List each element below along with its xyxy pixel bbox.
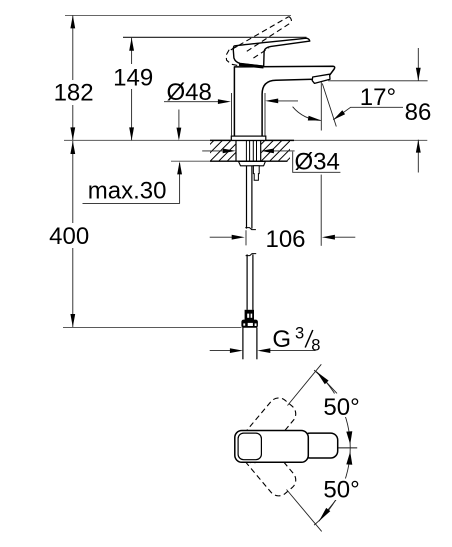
dimension 106 — [320, 175, 322, 246]
dimension 17 degrees — [320, 82, 322, 131]
svg-text:50°: 50° — [323, 394, 359, 421]
supply hose lower segment — [246, 254, 248, 310]
shank through deck — [235, 140, 237, 161]
reference line lever top (149) — [123, 36, 307, 38]
hose nipple steps — [253, 166, 259, 180]
dimension diameter 34 (shank) — [202, 150, 224, 152]
faucet body and spout outline — [234, 66, 334, 136]
svg-text:max.30: max.30 — [88, 177, 167, 204]
ray down 50 — [287, 490, 322, 532]
svg-text:86: 86 — [405, 99, 432, 126]
hose end collar — [245, 310, 254, 320]
dimension max.30 — [178, 110, 180, 139]
dashed handle rotated up 50 — [232, 394, 300, 467]
dimension 149 — [131, 38, 133, 141]
svg-text:149: 149 — [113, 65, 153, 92]
dashed handle rotated down 50 — [232, 427, 300, 500]
base plate — [231, 136, 265, 140]
svg-text:50°: 50° — [323, 477, 359, 504]
lever collar (dark band) — [239, 64, 264, 67]
svg-text:400: 400 — [49, 223, 89, 250]
svg-text:G: G — [272, 326, 291, 353]
leader bottom 50 — [319, 496, 340, 522]
axis line at handle end — [338, 447, 357, 449]
handle top view (solid) — [303, 433, 338, 458]
dimension diameter 48 — [231, 93, 233, 136]
svg-text:Ø34: Ø34 — [295, 148, 340, 175]
mounting flange under deck — [239, 161, 266, 165]
svg-text:106: 106 — [265, 226, 305, 253]
reference line hose end (400) — [63, 327, 242, 329]
dimension 86 — [328, 80, 427, 82]
dimension 400 — [72, 141, 74, 327]
supply hose upper segment — [246, 166, 248, 229]
reference line top (max lever height) — [65, 15, 291, 17]
lever raised position (dashed) — [226, 17, 291, 66]
hose nut — [242, 320, 258, 327]
lever handle (solid, horizontal) — [233, 38, 309, 66]
svg-text:182: 182 — [54, 80, 94, 107]
leader top 50 — [316, 372, 337, 394]
svg-text:17°: 17° — [360, 84, 396, 111]
G3/8 tail pipe — [242, 327, 244, 359]
svg-text:8: 8 — [311, 336, 320, 354]
dimension G 3/8 — [210, 350, 231, 352]
ray up 50 — [288, 364, 322, 405]
spout underside — [262, 79, 313, 136]
dimension 182 — [72, 15, 74, 140]
swivel arc — [314, 370, 350, 525]
deck top line — [64, 139, 210, 141]
deck hatching — [193, 140, 307, 161]
deck bottom line — [171, 160, 210, 162]
svg-text:3: 3 — [295, 324, 304, 342]
aerator — [312, 74, 330, 83]
